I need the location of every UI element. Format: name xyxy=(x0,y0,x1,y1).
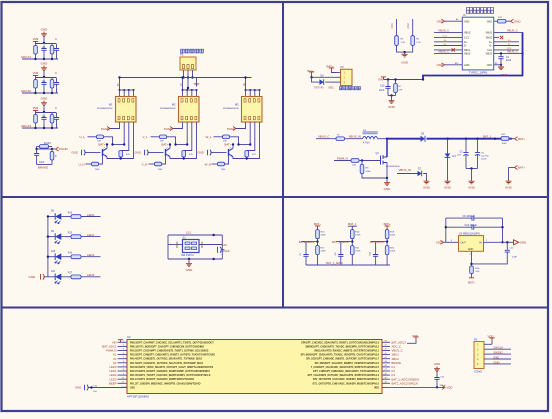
section divider horizontal upper xyxy=(2,196,547,198)
resistor base M3 xyxy=(212,163,218,165)
resistor pulldown M2 xyxy=(182,151,186,158)
svg-text:PWM_N: PWM_N xyxy=(337,156,348,160)
svg-text:VBUS_C: VBUS_C xyxy=(507,29,518,33)
svg-text:VM4: VM4 xyxy=(33,37,39,41)
svg-text:VBUS: VBUS xyxy=(464,32,471,35)
svg-text:BAT+: BAT+ xyxy=(518,166,525,170)
svg-text:PA1.1/UART1_RX/GPT_CHD/ADC_IN3: PA1.1/UART1_RX/GPT_CHD/ADC_IN3/BT2/EPI1/… xyxy=(130,378,195,381)
pin stub con5 2 xyxy=(484,348,492,350)
svg-text:1.1K: 1.1K xyxy=(416,42,421,44)
svg-text:Bat+: Bat+ xyxy=(308,69,314,73)
pin stub left mcu 3 xyxy=(118,350,128,352)
svg-text:GND: GND xyxy=(41,62,49,66)
svg-text:PGND: PGND xyxy=(59,147,69,151)
wire inductor to switch node xyxy=(378,138,387,140)
svg-text:PGND: PGND xyxy=(227,127,235,131)
power BAT+ below LDO xyxy=(469,277,474,279)
svg-text:ATS08A6M565W: ATS08A6M565W xyxy=(97,107,112,110)
wire emitter M1 xyxy=(107,157,126,159)
svg-text:47K: 47K xyxy=(252,154,256,156)
wire net ADCA1 xyxy=(22,58,58,60)
wire con5 net RXD xyxy=(492,358,511,360)
svg-text:100K: 100K xyxy=(355,251,361,253)
svg-text:100K: 100K xyxy=(390,251,396,253)
ground D4 xyxy=(445,179,451,184)
wire con5 net SWDIO xyxy=(492,353,511,355)
wire D- right xyxy=(494,45,519,47)
svg-text:GND: GND xyxy=(437,63,443,67)
resistor divider R ADCA3 xyxy=(35,113,37,115)
wire M2 PGND pin xyxy=(173,122,183,129)
svg-text:M2: M2 xyxy=(172,103,176,107)
svg-text:LS1: LS1 xyxy=(186,231,191,235)
svg-text:GND: GND xyxy=(487,20,493,23)
svg-text:BAT+: BAT+ xyxy=(468,281,475,285)
svg-text:SPI_SCK/GPT_CHB/ADC_IN8/BT1_OU: SPI_SCK/GPT_CHB/ADC_IN8/BT1_OUT/CMP_OUT/… xyxy=(306,358,380,361)
svg-text:OUT: OUT xyxy=(461,242,467,245)
svg-text:BT1_OUT/GPTB_CHBY/ADC_IN14/SPI: BT1_OUT/GPTB_CHBY/ADC_IN14/SPI_MOSI/TCH/… xyxy=(313,382,380,385)
pin stub right mcu 7 xyxy=(382,366,390,368)
wire LED3 to resistor xyxy=(61,276,71,278)
wire brake bottom xyxy=(37,164,52,166)
power ground symbol at connector xyxy=(194,84,199,87)
wire D+ left xyxy=(434,41,462,43)
pin 1 mark switch xyxy=(176,242,178,248)
svg-text:104uF: 104uF xyxy=(223,250,230,253)
resistor base M2 xyxy=(149,163,155,165)
svg-text:VSS: VSS xyxy=(130,386,135,389)
pin stub con5 3 xyxy=(484,353,492,355)
wire CC2 right xyxy=(494,49,519,51)
pin 2 mark switch xyxy=(201,242,203,248)
svg-text:GND: GND xyxy=(198,151,204,155)
pin stub right mcu 8 xyxy=(382,370,390,372)
motor driver IC M3 xyxy=(242,97,263,123)
wire top bus ADCA3 xyxy=(36,112,57,114)
svg-text:C: C xyxy=(55,106,57,110)
power port BAT+ main xyxy=(515,137,518,141)
wire LDO right vertical xyxy=(502,218,504,242)
svg-text:GND: GND xyxy=(487,64,493,67)
svg-text:47K: 47K xyxy=(189,154,193,156)
svg-text:M1: M1 xyxy=(109,103,113,107)
svg-text:W_L: W_L xyxy=(206,135,213,139)
ground C1 xyxy=(498,65,504,70)
svg-text:GND: GND xyxy=(464,64,470,67)
capacitor C12 xyxy=(506,242,508,248)
svg-text:ATS08A6M565W: ATS08A6M565W xyxy=(223,107,238,110)
wire emitter M3 xyxy=(233,157,252,159)
svg-text:GND: GND xyxy=(75,386,81,390)
svg-text:GND: GND xyxy=(468,248,474,251)
svg-text:R16: R16 xyxy=(68,253,73,255)
svg-text:M3: M3 xyxy=(235,103,239,107)
wire VIN node xyxy=(384,79,424,81)
capacitor brake C xyxy=(36,149,38,153)
capacitor C6 electrolytic xyxy=(476,138,478,140)
svg-text:SWCLK/UART0_RX/ADC_IN6/BT2_OUT: SWCLK/UART0_RX/ADC_IN6/BT2_OUT/EPI/TCH/I… xyxy=(314,350,380,353)
svg-text:T_CHD/GPT_CHAX/ADC_IN10/UART0_: T_CHD/GPT_CHAX/ADC_IN10/UART0_RX/BT1/TCH… xyxy=(311,366,380,369)
svg-text:VBUS_C: VBUS_C xyxy=(438,29,449,33)
wire BAT node M2 xyxy=(176,144,188,146)
svg-text:100K: 100K xyxy=(355,235,361,237)
svg-text:GND: GND xyxy=(494,360,500,364)
wire fuse to inductor xyxy=(345,138,363,140)
power port GND right of R12 xyxy=(511,19,514,23)
svg-text:100K: 100K xyxy=(366,171,372,173)
svg-text:PB0.0/GPT_CHAPW/T_CHC/VDC_SCL/: PB0.0/GPT_CHAPW/T_CHC/VDC_SCL/UART1_TX/B… xyxy=(130,341,214,344)
title power input xyxy=(467,8,494,14)
wire divider bottom C11 xyxy=(376,264,388,266)
svg-text:GND: GND xyxy=(505,186,513,190)
svg-text:GND: GND xyxy=(437,19,443,23)
svg-text:V_H: V_H xyxy=(142,162,148,166)
resistor pulldown M1 xyxy=(119,151,123,158)
svg-text:R15: R15 xyxy=(68,232,73,234)
resistor R10 xyxy=(317,229,319,230)
wire LDO gnd pin down xyxy=(471,251,473,266)
svg-text:BAT_1: BAT_1 xyxy=(348,222,357,226)
svg-text:VDD: VDD xyxy=(447,386,453,390)
wire M2 top pin bus xyxy=(183,89,197,91)
wire LED1 to resistor xyxy=(61,236,71,238)
power port PGND M2 xyxy=(170,127,173,131)
ground right low xyxy=(508,168,510,180)
svg-text:VDD: VDD xyxy=(412,334,418,338)
svg-text:GND: GND xyxy=(514,19,520,23)
svg-text:VM4: VM4 xyxy=(33,106,39,110)
wire VBUS thick rail xyxy=(423,32,523,79)
svg-text:CC1: CC1 xyxy=(464,37,469,40)
wire net ADCA3 xyxy=(22,127,58,129)
resistor base M1 xyxy=(86,163,92,165)
svg-text:GND: GND xyxy=(384,187,392,191)
svg-text:LED0: LED0 xyxy=(87,213,95,217)
svg-text:ATS08A6M565W: ATS08A6M565W xyxy=(160,107,175,110)
svg-text:U2: U2 xyxy=(127,335,131,339)
ground mosfet xyxy=(386,177,388,179)
pin stub left mcu 4 xyxy=(118,354,128,356)
pin stub left mcu 6 xyxy=(118,362,128,364)
svg-text:K: K xyxy=(55,154,57,158)
svg-text:D-: D- xyxy=(464,45,467,48)
power port VDD bottom xyxy=(442,385,445,389)
wire BAT node M3 xyxy=(239,144,251,146)
svg-text:VBUS: VBUS xyxy=(464,53,471,56)
svg-text:1.1K: 1.1K xyxy=(401,42,406,44)
wire P2 pin2 xyxy=(312,75,337,78)
pin stub left mcu 10 xyxy=(118,378,128,380)
svg-text:CC1: CC1 xyxy=(390,23,394,29)
ground C13 R7 xyxy=(389,99,395,104)
svg-text:BAT_1_ADC2: BAT_1_ADC2 xyxy=(326,261,343,265)
svg-text:10K: 10K xyxy=(352,165,356,167)
svg-text:C13: C13 xyxy=(380,85,385,88)
svg-text:R17: R17 xyxy=(68,273,73,275)
wire CC1 left xyxy=(434,36,462,38)
wire U phase drop xyxy=(119,78,121,91)
wire M3 output pins down xyxy=(249,122,251,145)
wire M3 PGND pin xyxy=(236,122,246,129)
svg-text:PA0.3/GPT_CHB/SPT_CHB/UART1_RX: PA0.3/GPT_CHB/SPT_CHB/UART1_RX/BT2_OUT/B… xyxy=(130,354,215,357)
motor driver IC M2 xyxy=(179,97,200,123)
svg-text:SWDIO: SWDIO xyxy=(494,351,503,355)
wire LED cathode bus xyxy=(47,217,49,277)
svg-text:PB0.1/GVT1_BGIO/GPT_CHA/GPT_CH: PB0.1/GVT1_BGIO/GPT_CHA/GPT_CHB/ADC/IN_O… xyxy=(130,345,204,348)
svg-text:V_L: V_L xyxy=(143,135,149,139)
svg-text:VDD: VDD xyxy=(374,386,379,389)
capacitor C2 ADCA3 xyxy=(56,113,58,115)
wire collector M2 xyxy=(169,145,171,149)
svg-text:PGND: PGND xyxy=(101,127,109,131)
pin stub left mcu 2 xyxy=(118,345,128,347)
svg-text:VIN: VIN xyxy=(378,78,383,82)
wire divider bottom C8 xyxy=(341,264,353,266)
svg-text:C: C xyxy=(55,37,57,41)
capacitor C13 xyxy=(387,80,389,84)
pin stub con5 4 xyxy=(484,358,492,360)
resistor divider R ADCA2 xyxy=(35,78,37,80)
svg-text:VBUS: VBUS xyxy=(485,53,492,56)
svg-text:N5C: N5C xyxy=(329,85,334,89)
svg-text:GND: GND xyxy=(41,97,49,101)
pin stub left mcu 1 xyxy=(118,341,128,343)
pin stub right mcu 3 xyxy=(382,350,390,352)
resistor gate M1 xyxy=(88,136,97,138)
svg-text:47K: 47K xyxy=(126,154,130,156)
resistor R2 ADCA1 xyxy=(51,44,53,46)
svg-text:P2: P2 xyxy=(341,65,345,69)
svg-text:GND: GND xyxy=(444,186,452,190)
wire LDO in xyxy=(484,241,503,243)
pin stub right mcu 2 xyxy=(382,345,390,347)
svg-text:LED3: LED3 xyxy=(87,273,95,277)
wire VBUS right to thick rail xyxy=(494,31,523,33)
motor driver IC M1 xyxy=(116,97,137,123)
svg-text:ADCA3: ADCA3 xyxy=(21,124,31,128)
pin stub left mcu 7 xyxy=(118,366,128,368)
svg-text:CC1: CC1 xyxy=(443,36,448,38)
svg-text:BT2_OUT/GPTB_CHAY/ADC_IN13/SPI: BT2_OUT/GPTB_CHAY/ADC_IN13/SPI_MISO/TCH/… xyxy=(313,378,380,381)
svg-text:ADCA1: ADCA1 xyxy=(21,55,31,59)
wire divider common bottom xyxy=(306,264,390,266)
resistor R12 top right of J1 xyxy=(494,20,498,22)
no connect SBU2 right xyxy=(494,36,499,38)
svg-text:GND: GND xyxy=(29,275,37,279)
pin stub left mcu 8 xyxy=(118,370,128,372)
svg-text:D-: D- xyxy=(508,44,511,46)
diode D7 vbus detect xyxy=(397,173,418,175)
svg-text:100K: 100K xyxy=(390,235,396,237)
resistor R17 xyxy=(316,246,320,255)
svg-text:D10: D10 xyxy=(51,251,56,253)
pin stub left mcu 9 xyxy=(118,374,128,376)
power port PGND brake xyxy=(56,147,59,151)
pin stub right mcu 10 xyxy=(382,378,390,380)
wire W phase drop xyxy=(245,78,247,91)
wire VDD out xyxy=(446,241,459,243)
svg-text:W: W xyxy=(243,83,246,87)
wire collector M1 xyxy=(106,145,108,149)
svg-text:GND: GND xyxy=(401,60,409,64)
wire top bus ADCA2 xyxy=(36,77,57,79)
resistor R11 xyxy=(501,137,509,141)
svg-text:VDD: VDD xyxy=(436,241,442,245)
svg-text:GND: GND xyxy=(135,151,141,155)
pin stub right mcu 9 xyxy=(382,374,390,376)
svg-text:BAT+: BAT+ xyxy=(518,137,525,141)
svg-text:D-: D- xyxy=(444,44,447,46)
svg-text:IN: IN xyxy=(479,242,482,245)
ground CC resistors xyxy=(402,52,408,57)
svg-text:47K: 47K xyxy=(399,90,403,92)
svg-text:PA1.0/UART1_TX/GPT_CHC/ADC_IN2: PA1.0/UART1_TX/GPT_CHC/ADC_IN2/BT1/CMP1_… xyxy=(130,374,211,377)
zener diode D4 xyxy=(446,138,448,140)
wire vbus to fuse xyxy=(316,138,336,140)
svg-text:BAT+: BAT+ xyxy=(162,143,169,147)
wire resistor to net LED1 xyxy=(81,236,101,238)
svg-text:SWCLK: SWCLK xyxy=(494,346,504,350)
wire collector M3 xyxy=(232,145,234,149)
resistor R9 gate xyxy=(334,160,351,162)
svg-text:7V(TYP): 7V(TYP) xyxy=(314,85,324,89)
wire emitter M2 xyxy=(170,157,189,159)
ground switch xyxy=(188,259,190,262)
svg-text:BRAKE: BRAKE xyxy=(38,166,48,170)
svg-text:D-: D- xyxy=(489,45,492,48)
svg-text:10uF: 10uF xyxy=(39,161,45,164)
svg-text:LED2: LED2 xyxy=(87,253,95,257)
resistor brake lower xyxy=(51,149,53,152)
pin stub right mcu 6 xyxy=(382,362,390,364)
wire P2 pin3 diode branch xyxy=(312,77,320,82)
resistor R24 xyxy=(385,246,389,255)
resistor R20 xyxy=(351,229,353,230)
wire net ADCA2 xyxy=(22,92,58,94)
wire brake node xyxy=(36,147,38,150)
fuse F2 xyxy=(336,137,345,141)
wire V phase drop xyxy=(182,78,184,91)
resistor R2 ADCA2 xyxy=(51,78,53,80)
wire M1 top pin bus xyxy=(120,89,134,91)
svg-text:SPI_NSS/GPT_CHA/ADC_IN9/BT2_TX: SPI_NSS/GPT_CHA/ADC_IN9/BT2_TX/EPI0/TCH/… xyxy=(315,362,380,365)
capacitor C10 buzzer xyxy=(218,247,222,253)
svg-text:VBUS_IN: VBUS_IN xyxy=(399,168,411,172)
svg-text:R14: R14 xyxy=(68,212,73,214)
svg-text:U_H: U_H xyxy=(79,162,85,166)
pin stub right mcu 4 xyxy=(382,354,390,356)
svg-text:VBUS_C: VBUS_C xyxy=(507,50,518,54)
wire switch loop xyxy=(168,234,222,236)
wire resistor to net LED3 xyxy=(81,276,101,278)
svg-text:TYPEC_16PIN: TYPEC_16PIN xyxy=(469,71,488,75)
resistor gate M2 xyxy=(151,136,160,138)
wire GND pin right xyxy=(494,64,501,66)
power port BAT+ right low xyxy=(509,167,515,169)
svg-text:EPI/GPT_CHC/VDC_SDA/UART1_RX/B: EPI/GPT_CHC/VDC_SDA/UART1_RX/BT1_OUT/TCH… xyxy=(301,341,379,344)
wire resistor to net LED2 xyxy=(81,256,101,258)
svg-text:VBUS: VBUS xyxy=(485,32,492,35)
svg-text:PA0.4/GPT_CHB/SBT1_OUT/VDC_SDA: PA0.4/GPT_CHB/SBT1_OUT/VDC_SDA/UART1_TX/… xyxy=(130,358,203,361)
capacitor C1 xyxy=(500,53,502,56)
svg-text:C10: C10 xyxy=(222,243,227,247)
wire switch node thick xyxy=(387,138,421,140)
pin stub right mcu 5 xyxy=(382,358,390,360)
svg-text:ADCA2: ADCA2 xyxy=(21,89,31,93)
capacitor C8 xyxy=(340,242,342,252)
svg-text:GND: GND xyxy=(520,241,526,245)
pin stub left mcu 5 xyxy=(118,358,128,360)
wire VDD top right mcu xyxy=(407,340,416,344)
svg-text:S1: S1 xyxy=(183,235,187,239)
wire M1 output pins down xyxy=(123,122,125,145)
svg-text:SBU2: SBU2 xyxy=(486,37,493,40)
wire LED2 to resistor xyxy=(61,256,71,258)
svg-text:10K: 10K xyxy=(475,271,479,273)
svg-text:GND: GND xyxy=(434,362,440,366)
wire con5 net GND xyxy=(492,363,511,365)
resistor gate M3 xyxy=(214,136,223,138)
power port GND right of LDO xyxy=(514,240,519,245)
svg-text:BAT2_ADC1/SWCLK: BAT2_ADC1/SWCLK xyxy=(392,381,419,385)
svg-text:GND: GND xyxy=(186,268,194,272)
svg-text:EPT_CHB/GPT_CHBX/ADC_IN11/UART: EPT_CHB/GPT_CHBX/ADC_IN11/UART2_TX/TCH/I… xyxy=(313,370,380,373)
svg-text:PA0.7/UART0_RX/GPT_CHB/ADC_IN1: PA0.7/UART0_RX/GPT_CHB/ADC_IN1/BT2/CMP_O… xyxy=(130,370,210,373)
capacitor C7 xyxy=(305,242,307,252)
svg-text:PA0.6/UART0_TX/DC_SDA/BT1_OUT/: PA0.6/UART0_TX/DC_SDA/BT1_OUT/GPT_CHA/T_… xyxy=(130,366,214,369)
resistor R7 xyxy=(395,80,397,84)
wire R11 to BAT+ xyxy=(510,138,515,140)
svg-text:PA1.2/T_CHD/SPI_MISO/ADC_IN4/G: PA1.2/T_CHD/SPI_MISO/ADC_IN4/GPTB_CHAX/L… xyxy=(130,382,201,385)
resistor pulldown M3 xyxy=(245,151,249,158)
svg-text:7506: 7506 xyxy=(95,169,101,171)
wire phase bus xyxy=(120,77,252,79)
svg-text:220uF: 220uF xyxy=(481,158,487,160)
wire C5 C6 join xyxy=(466,168,478,170)
svg-text:RXD: RXD xyxy=(494,355,500,359)
svg-text:SWDIO/GPT_CHD/UART1_TX/ADC_IN5: SWDIO/GPT_CHD/UART1_TX/ADC_IN5/CMP0_OUT/… xyxy=(305,345,379,348)
power VDD con5 xyxy=(491,341,493,345)
svg-text:VM4: VM4 xyxy=(33,71,39,75)
pin stub left mcu 11 xyxy=(118,382,128,384)
resistor R2 ADCA3 xyxy=(51,113,53,115)
section divider vertical xyxy=(282,3,284,308)
svg-text:100K: 100K xyxy=(502,143,508,145)
wire M1 PGND pin xyxy=(110,122,120,129)
ground D7 xyxy=(424,179,430,184)
svg-text:U_L: U_L xyxy=(80,135,86,139)
ground C5 C6 xyxy=(469,179,475,184)
resistor R8 pulldown xyxy=(361,161,363,165)
svg-text:BAT_1: BAT_1 xyxy=(483,134,492,138)
svg-text:VBUS_C: VBUS_C xyxy=(318,134,330,138)
svg-text:SW 1SP=2: SW 1SP=2 xyxy=(181,253,194,257)
wire VBUS_C lower right xyxy=(494,52,523,54)
svg-text:LED1: LED1 xyxy=(87,233,95,237)
svg-text:PA1.5/GPT_CHA/SGT1_OUT/VDC_SCL: PA1.5/GPT_CHA/SGT1_OUT/VDC_SCL/UART1_RX/… xyxy=(130,362,204,365)
pin stub con5 1 xyxy=(484,343,492,345)
svg-text:VBUS_C: VBUS_C xyxy=(438,50,449,54)
svg-text:100K: 100K xyxy=(321,235,327,237)
svg-text:VDD: VDD xyxy=(488,334,494,338)
pin stub right mcu 1 xyxy=(382,341,390,343)
svg-text:PGND: PGND xyxy=(164,127,172,131)
resistor R16 ldo xyxy=(470,266,474,274)
svg-text:SPI_MOSI/GPT_CHD/UART0_TX/ADC_: SPI_MOSI/GPT_CHD/UART0_TX/ADC_IN7/GPTB_C… xyxy=(301,354,380,357)
wire connector P1 pins to phase bus xyxy=(183,70,185,78)
svg-text:EPT_CHA/CMP0_OUT/ADC_IN12/UART: EPT_CHA/CMP0_OUT/ADC_IN12/UART2_RX/BT2/T… xyxy=(308,374,380,377)
pin stub con5 5 xyxy=(484,363,492,365)
